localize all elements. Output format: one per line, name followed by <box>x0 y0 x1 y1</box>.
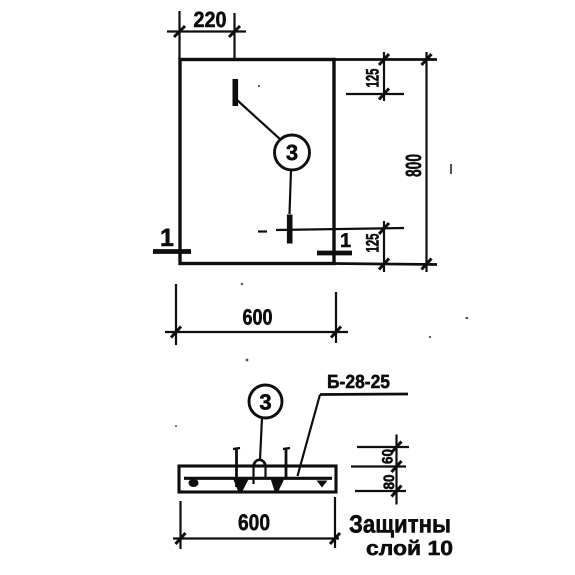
tick 125 bottom upper <box>379 223 389 234</box>
svg-text:Б-28-25: Б-28-25 <box>327 372 390 393</box>
balloon circle 3 (plan) <box>275 135 310 170</box>
leader from section balloon to loop <box>260 418 262 460</box>
lifting loop mark upper (plan) <box>233 79 239 106</box>
dimension 600 section extension right <box>334 497 336 548</box>
tick at slab top <box>392 461 402 472</box>
svg-text:220: 220 <box>194 7 227 32</box>
svg-text:125: 125 <box>363 234 383 253</box>
tick 125 top upper <box>379 54 389 65</box>
extension line bottom edge to right <box>334 264 437 265</box>
centerline through lower loop <box>276 228 404 230</box>
loop wire right serif <box>283 448 290 449</box>
dimension 600 plan line <box>165 331 348 333</box>
svg-text:3: 3 <box>286 140 298 165</box>
center loop leg left <box>252 467 254 484</box>
extension line at upper loop axis <box>346 93 404 95</box>
extension line top edge to right <box>334 58 437 61</box>
leader from C-28-25 to rebar <box>298 395 321 477</box>
svg-text:слой 10: слой 10 <box>366 537 453 560</box>
leader from balloon to lower loop <box>290 170 292 214</box>
tick 125 bottom lower <box>379 259 389 270</box>
tick 600 plan left <box>171 327 181 338</box>
svg-text:60: 60 <box>380 449 397 464</box>
tick 600 section left <box>176 533 186 544</box>
section mark 1 right bar <box>317 251 352 256</box>
rebar line (section) <box>184 477 332 480</box>
dimension 220 extension line right <box>233 13 235 60</box>
balloon circle 3 (section) <box>249 385 282 418</box>
tick right of 220 <box>229 26 240 37</box>
extension at slab bottom level <box>355 490 406 492</box>
svg-text:80: 80 <box>381 475 398 490</box>
dimension 125 bottom line <box>383 221 385 272</box>
tick 600 section right <box>330 533 340 544</box>
svg-text:Защитны: Защитны <box>349 511 451 539</box>
rebar spacer blob far right <box>317 481 328 488</box>
underline of C-28-25 <box>320 393 408 396</box>
dimension 600 section extension left <box>179 501 181 549</box>
extension at loop top level <box>357 446 409 448</box>
tick at slab bottom <box>392 486 402 497</box>
dimension 600 plan extension left <box>175 284 177 345</box>
tick 600 plan right <box>331 327 341 338</box>
dimension 220 line <box>167 30 246 32</box>
dimension 800 line <box>425 52 427 272</box>
dimension line 60/80 vertical <box>395 435 397 505</box>
dimension 220 extension line left <box>178 11 180 60</box>
loop wire left serif <box>233 448 240 449</box>
center loop leg right <box>264 467 266 477</box>
svg-text:1: 1 <box>340 230 351 252</box>
dimension 600 section line <box>173 537 339 539</box>
lifting loop wire left (section) <box>235 449 238 488</box>
rebar support blob right-center <box>271 479 285 492</box>
tick at loop top <box>392 442 402 453</box>
tick 800 top <box>422 54 432 65</box>
centerline dash left <box>258 230 267 232</box>
tick left of 220 <box>174 26 185 37</box>
panel outline (plan view) <box>180 60 334 264</box>
rebar support blob left-center <box>233 479 249 492</box>
svg-text:3: 3 <box>259 390 271 415</box>
svg-text:600: 600 <box>238 510 270 535</box>
tick 800 bottom <box>422 259 432 270</box>
lifting loop wire right (section) <box>285 449 288 479</box>
leader from upper loop to balloon <box>237 100 281 140</box>
svg-text:125: 125 <box>363 69 383 88</box>
tick 125 top lower <box>379 89 389 100</box>
dimension 125 top line <box>383 52 385 101</box>
extension at slab top level <box>351 465 406 467</box>
svg-text:1: 1 <box>160 224 174 252</box>
dimension 600 plan extension right <box>335 292 337 343</box>
section mark 1 left bar <box>153 249 191 254</box>
lifting loop mark lower (plan) <box>287 215 293 244</box>
svg-text:600: 600 <box>243 305 273 330</box>
center lifting loop arc (section) <box>254 460 266 467</box>
slab outline (section view) <box>179 466 336 492</box>
scan speckles <box>175 85 468 427</box>
rebar spacer blob far left <box>189 479 199 487</box>
svg-text:800: 800 <box>401 154 426 177</box>
